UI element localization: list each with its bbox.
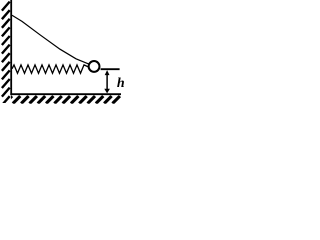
arrow shaft: [106, 73, 108, 91]
ball: [89, 61, 100, 72]
ground hatching: [5, 96, 120, 104]
wall hatching: [2, 2, 10, 106]
ground line: [10, 93, 121, 95]
arrowhead top: [105, 70, 110, 75]
string: [12, 15, 90, 64]
spring: [12, 65, 88, 73]
background: [0, 0, 125, 106]
svg-text:h: h: [117, 76, 125, 91]
wall line: [10, 0, 12, 95]
reference line: [101, 68, 120, 70]
arrowhead bottom: [104, 89, 110, 94]
